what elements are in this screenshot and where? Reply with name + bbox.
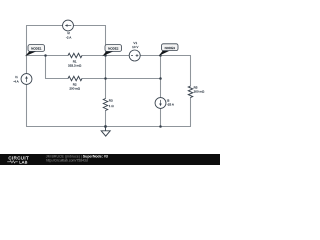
junction dots (44, 54, 162, 128)
svg-text:R3: R3 (109, 99, 113, 103)
node dot NODE2 main (104, 54, 107, 57)
resistor R3 (103, 99, 114, 111)
current source I2 (63, 20, 74, 39)
wire R3 to bottom (105, 111, 107, 127)
svg-text:1 Ω: 1 Ω (109, 104, 115, 108)
svg-text:NODE3: NODE3 (165, 46, 176, 50)
wire right column to R5 (190, 56, 192, 87)
wire R2 branch vertical connector (45, 56, 47, 79)
wire I3 to bottom (160, 108, 162, 126)
wire bottom horizontal (27, 126, 191, 128)
node dot NODE2 row2 (104, 77, 107, 80)
watermark bar (0, 154, 220, 165)
svg-text:200 mΩ: 200 mΩ (194, 90, 205, 94)
wire top horizontal right of I2 (73, 25, 105, 27)
svg-text:-4 A: -4 A (13, 79, 19, 83)
ground (101, 127, 110, 137)
svg-text:LAB: LAB (19, 159, 27, 164)
wire R1 to NODE2 (82, 55, 106, 57)
node dot NODE3 main (159, 54, 162, 57)
wire left column I1 lower lead (26, 84, 28, 126)
wire NODE1 to R1 (27, 55, 69, 57)
node NODE2 (102, 45, 121, 57)
node NODE1 (25, 45, 45, 57)
wire NODE3 to top-right corner (161, 55, 191, 57)
wire top-left vertical (26, 26, 28, 56)
wire left column I1 upper lead (26, 56, 28, 74)
svg-text:200 mΩ: 200 mΩ (69, 87, 80, 91)
node dot R2 branch top (44, 54, 47, 57)
wire top horizontal left of I2 (27, 25, 63, 27)
svg-text:NODE1: NODE1 (31, 47, 42, 51)
current source I1 (13, 74, 32, 85)
wire R2 branch left lead (46, 78, 69, 80)
node dot ground (104, 125, 107, 128)
wire NODE3 column to I3 (160, 56, 162, 98)
svg-text:-25 A: -25 A (167, 103, 175, 107)
wire R5 to bottom (190, 98, 192, 127)
wire R2 to NODE2 column (82, 78, 106, 80)
svg-text:NODE2: NODE2 (108, 47, 119, 51)
resistor R2 (68, 76, 82, 90)
wire NODE2 to NODE3 cross connector (106, 78, 161, 80)
wire V1 to NODE3 (140, 55, 160, 57)
resistor R5 (188, 86, 205, 98)
node dot I3 bottom (159, 125, 162, 128)
wire NODE2 column to R3 (105, 56, 107, 99)
wire NODE2 to V1 (106, 55, 130, 57)
node NODE3 (159, 44, 178, 56)
resistor R1 (68, 53, 82, 67)
svg-text:http://circuitlab.com/75843d: http://circuitlab.com/75843d (46, 158, 88, 162)
wire top-right vertical into NODE2 (105, 26, 107, 56)
node dot NODE3 row2 (159, 77, 162, 80)
svg-text:333.3 mΩ: 333.3 mΩ (68, 64, 82, 68)
svg-text:10 V: 10 V (132, 45, 139, 49)
voltage source V1 (129, 41, 140, 61)
current source I3 (155, 98, 175, 109)
